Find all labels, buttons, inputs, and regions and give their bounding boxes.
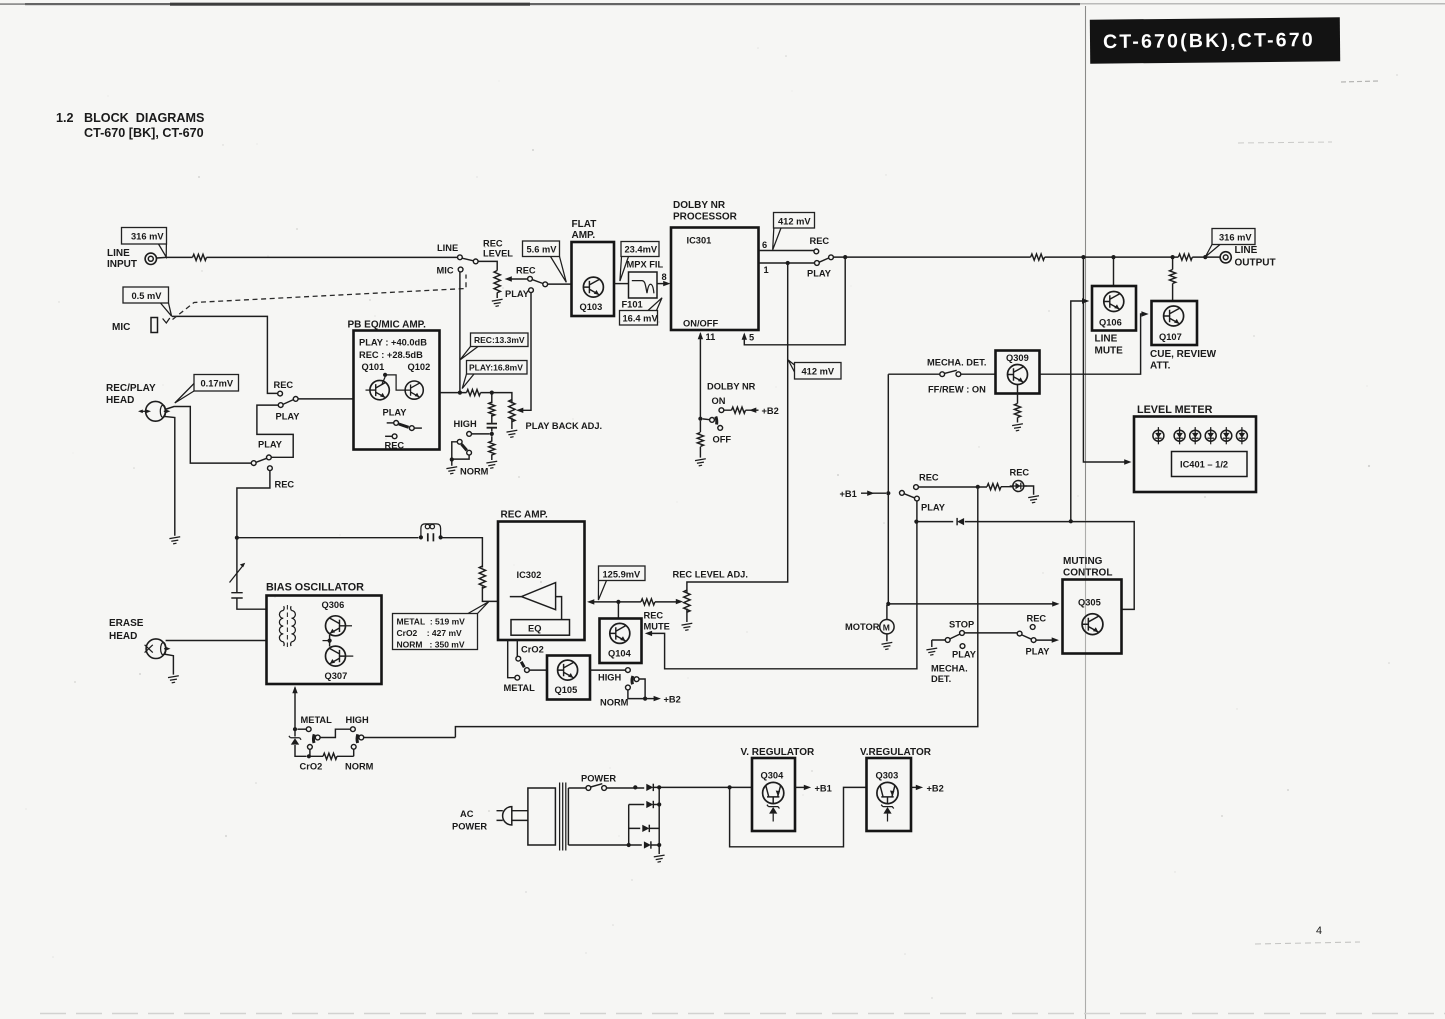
svg-text:CrO2: CrO2 bbox=[521, 645, 544, 655]
transistor Q104 bbox=[610, 623, 630, 643]
svg-text:+B1: +B1 bbox=[815, 784, 832, 794]
svg-text:LEVEL METER: LEVEL METER bbox=[1137, 404, 1213, 416]
svg-text:AMP.: AMP. bbox=[572, 230, 596, 241]
HIGH contact (bias) bbox=[351, 727, 356, 732]
transistor Q103 bbox=[583, 277, 603, 297]
svg-text:Q102: Q102 bbox=[408, 362, 431, 372]
svg-text:PLAY:16.8mV: PLAY:16.8mV bbox=[469, 363, 523, 373]
svg-text:METAL: METAL bbox=[504, 683, 536, 693]
wire: erase head to ground bbox=[164, 654, 174, 675]
svg-text:NORM : 350 mV: NORM : 350 mV bbox=[397, 640, 465, 650]
HIGH/NORM blade (bias) bbox=[351, 734, 363, 756]
ground (stop/play) bbox=[926, 648, 937, 655]
EQ box bbox=[511, 620, 570, 636]
svg-text:AC: AC bbox=[460, 809, 474, 819]
svg-text:LINE: LINE bbox=[107, 248, 130, 259]
svg-text:OFF: OFF bbox=[713, 435, 732, 445]
svg-text:HIGH: HIGH bbox=[346, 715, 370, 725]
svg-text:8: 8 bbox=[662, 272, 667, 282]
ground (rec level adj) bbox=[682, 623, 693, 630]
svg-text:MUTE: MUTE bbox=[644, 622, 670, 632]
bias table callout bbox=[393, 602, 489, 650]
node: dolby switch junction bbox=[698, 417, 702, 421]
svg-text:HIGH: HIGH bbox=[454, 419, 478, 429]
ground (rec level pot) bbox=[492, 299, 503, 306]
wire: erase head to bias box bbox=[166, 640, 266, 642]
node: output common junction bbox=[843, 255, 847, 259]
svg-text:PLAY: PLAY bbox=[505, 289, 530, 299]
svg-text:IC401 – 1/2: IC401 – 1/2 bbox=[1180, 460, 1228, 470]
svg-text:METAL: METAL bbox=[301, 715, 333, 725]
rectifier left bus bbox=[628, 805, 630, 846]
model title black box bbox=[1090, 17, 1340, 63]
wire: play contact down bbox=[649, 501, 917, 669]
transistor Q101 bbox=[370, 380, 389, 399]
wire: pin 6 to REC contact bbox=[759, 250, 814, 252]
svg-text:4: 4 bbox=[1316, 925, 1322, 937]
node: rec drop junction bbox=[976, 485, 980, 489]
svg-text:6: 6 bbox=[762, 240, 767, 250]
node: meter tap bbox=[1081, 255, 1085, 259]
playback adj pot bbox=[509, 400, 515, 422]
svg-text:23.4mV: 23.4mV bbox=[625, 245, 658, 255]
svg-text:REC:13.3mV: REC:13.3mV bbox=[474, 335, 525, 345]
node: high contact junction bbox=[490, 432, 494, 436]
Q307 base stub bbox=[346, 655, 354, 657]
wire: PB EQ output to junction bbox=[440, 393, 512, 429]
svg-text:CrO2: CrO2 bbox=[300, 762, 323, 772]
node: output jack tap bbox=[1203, 255, 1207, 259]
upper head switch bbox=[278, 391, 298, 407]
diode D3 row bbox=[629, 827, 660, 829]
OFF blade switch bbox=[703, 417, 723, 431]
wire: bypass to Q303 bbox=[730, 787, 867, 846]
svg-text:DOLBY NR: DOLBY NR bbox=[673, 200, 726, 211]
wire/arrow +B1 output bbox=[795, 786, 807, 788]
node: Q107 tap bbox=[1171, 255, 1175, 259]
resistor (pb eq output) bbox=[467, 390, 481, 396]
Q104 box bbox=[600, 619, 642, 664]
diode (play line) bbox=[957, 518, 964, 525]
trimmer capacitor bbox=[230, 563, 246, 598]
IC401 box bbox=[1172, 452, 1248, 477]
callout 5.6 mV bbox=[523, 241, 567, 282]
callout 125.9mV bbox=[598, 566, 645, 600]
node: bias select junction bbox=[293, 727, 297, 731]
svg-text:11: 11 bbox=[706, 332, 716, 342]
svg-text:HEAD: HEAD bbox=[106, 395, 134, 406]
node: mic/line junction bbox=[458, 391, 462, 395]
dashed mic cable to MIC contact bbox=[173, 275, 467, 320]
power switch bbox=[568, 784, 606, 791]
svg-text:FF/REW : ON: FF/REW : ON bbox=[928, 385, 986, 395]
node: q104 junction bbox=[616, 600, 620, 604]
PLAY contact (dolby) bbox=[815, 261, 820, 266]
svg-text:5.6 mV: 5.6 mV bbox=[527, 245, 558, 255]
HIGH contact (B2 switch) bbox=[626, 668, 631, 673]
node: line mute junction bbox=[1069, 519, 1073, 523]
ON contact bbox=[719, 408, 724, 413]
wire: Q309 emitter to ground bbox=[1017, 385, 1019, 423]
arrowhead into playback pot bbox=[516, 408, 523, 413]
stop/play switch with ground bbox=[932, 631, 965, 649]
svg-text:LINE: LINE bbox=[1235, 245, 1258, 256]
wire: Q105 to HIGH contact bbox=[590, 669, 626, 671]
svg-text:LINE: LINE bbox=[437, 243, 458, 253]
svg-text:REC: REC bbox=[919, 473, 939, 483]
wire: switch common to rec level pot bbox=[478, 261, 497, 298]
diode D2 row bbox=[629, 804, 660, 806]
transistor Q107 bbox=[1164, 306, 1184, 326]
mic V connector bbox=[163, 318, 170, 323]
callout 16.4 mV bbox=[620, 298, 663, 325]
resistor (output line 2) bbox=[1178, 254, 1192, 260]
svg-text:412 mV: 412 mV bbox=[778, 217, 811, 227]
svg-text:CT-670 [BK], CT-670: CT-670 [BK], CT-670 bbox=[84, 126, 204, 140]
rec/play head symbol bbox=[138, 401, 170, 421]
callout 23.4mV bbox=[620, 242, 659, 282]
svg-text:REC: REC bbox=[810, 236, 830, 246]
capacitor (eq network) bbox=[487, 424, 497, 428]
node: record line junction bbox=[235, 536, 239, 540]
zener (Q304) bbox=[767, 805, 780, 822]
page fold line bbox=[1085, 6, 1087, 1019]
eq network: resistor chain bbox=[491, 393, 493, 460]
wire: high contact to junction bbox=[472, 433, 490, 435]
svg-text:PROCESSOR: PROCESSOR bbox=[673, 212, 738, 223]
ground (playback pot) bbox=[507, 430, 518, 437]
svg-text:MECHA. DET.: MECHA. DET. bbox=[927, 358, 986, 368]
ground (motor) bbox=[882, 642, 893, 649]
Q107 box bbox=[1152, 301, 1198, 345]
transistor Q102 bbox=[405, 381, 423, 399]
wire: switch to rectifier bbox=[607, 787, 645, 789]
transistor Q106 bbox=[1104, 292, 1124, 312]
V.REGULATOR box Q303 bbox=[867, 758, 912, 831]
diode D1 bbox=[646, 784, 653, 791]
svg-text:DOLBY NR: DOLBY NR bbox=[707, 382, 756, 392]
resistor (rec line) bbox=[479, 566, 485, 588]
BIAS OSCILLATOR box bbox=[267, 596, 382, 685]
REC contact (dolby) bbox=[814, 249, 819, 254]
callout 316 mV (output) bbox=[1205, 229, 1255, 257]
zener (Q303) bbox=[881, 805, 894, 822]
transistor Q306 bbox=[326, 616, 346, 636]
REC contact (flat amp) bbox=[528, 276, 533, 281]
callout 412 mV (pin1 tap) bbox=[788, 360, 841, 379]
wire: meter tap down to level meter bbox=[1083, 257, 1127, 462]
svg-text:Q305: Q305 bbox=[1078, 598, 1101, 608]
svg-text:CUE, REVIEW: CUE, REVIEW bbox=[1150, 349, 1217, 360]
wire/arrow +B2 output bbox=[911, 786, 919, 788]
wire: REC contact to LED bbox=[918, 486, 1012, 488]
pin 11 arrow bbox=[699, 334, 701, 419]
svg-text:HEAD: HEAD bbox=[109, 631, 137, 642]
svg-text:Q304: Q304 bbox=[761, 771, 785, 781]
wire: lower switch REC contact to bias junction bbox=[237, 471, 270, 538]
wire: line input to LINE contact, with resistor bbox=[157, 256, 458, 259]
CrO2/METAL blade switch bbox=[515, 656, 547, 680]
ground (eq network) bbox=[486, 461, 497, 468]
svg-text:CrO2 : 427 mV: CrO2 : 427 mV bbox=[397, 628, 463, 638]
node: motor junction bbox=[886, 602, 890, 606]
callout PLAY:16.8mV bbox=[462, 361, 527, 389]
wire: head to lower switch pivot bbox=[165, 407, 251, 464]
transistor Q305 bbox=[1082, 614, 1103, 635]
IC301 box bbox=[671, 228, 759, 331]
svg-text:ON: ON bbox=[712, 396, 726, 406]
node: pin1 tap junction bbox=[786, 261, 790, 265]
wire: upper switch pivot loop to lower switch PLAY contact bbox=[257, 405, 293, 457]
ground (high/norm switch) bbox=[446, 467, 457, 474]
wire: metal blade to high contact bbox=[320, 729, 350, 737]
wire: ON to +B2 with resistor and arrow bbox=[724, 409, 759, 411]
svg-text:+B1: +B1 bbox=[840, 489, 857, 499]
LED 2 bbox=[1174, 427, 1185, 444]
svg-text:IC302: IC302 bbox=[517, 570, 542, 580]
REC AMP box bbox=[498, 522, 585, 641]
wire: trimmer cap branch to bias oscillator bbox=[237, 539, 266, 609]
wire: common to FLAT AMP bbox=[548, 283, 572, 285]
svg-text:0.17mV: 0.17mV bbox=[201, 379, 234, 389]
transistor Q303 bbox=[877, 782, 898, 803]
Q105 box bbox=[547, 656, 590, 700]
wire: pin1 tap down to rec level adj bbox=[687, 265, 788, 622]
svg-text:Q103: Q103 bbox=[580, 302, 603, 312]
svg-text:METAL : 519 mV: METAL : 519 mV bbox=[397, 617, 466, 627]
svg-text:PLAY: PLAY bbox=[952, 650, 977, 660]
AC plug bbox=[497, 807, 512, 825]
svg-text:NORM: NORM bbox=[460, 467, 489, 477]
wire: mpx to IC301 with arrow bbox=[657, 283, 666, 285]
node: rectifier top left bbox=[633, 785, 637, 789]
svg-text:CONTROL: CONTROL bbox=[1063, 568, 1112, 579]
LED (rec indicator) bbox=[1010, 481, 1027, 492]
HIGH/NORM blade to +B2 bbox=[626, 676, 661, 701]
wire: pin 5 feedback loop bbox=[744, 259, 845, 345]
opamp triangle bbox=[510, 583, 562, 620]
Q306 base stub bbox=[346, 625, 353, 627]
svg-text:REC: REC bbox=[644, 611, 664, 621]
svg-text:5: 5 bbox=[749, 333, 754, 343]
ground (dolby) bbox=[695, 459, 706, 466]
transistor Q304 bbox=[763, 782, 784, 803]
svg-text:MUTING: MUTING bbox=[1063, 556, 1103, 567]
svg-text:MOTOR: MOTOR bbox=[845, 622, 880, 632]
bottom secondary wire and diode D4 bbox=[568, 845, 659, 854]
ground (erase head) bbox=[168, 676, 179, 683]
node: play/diode junction bbox=[914, 520, 918, 524]
LINE OUTPUT jack bbox=[1220, 252, 1231, 263]
svg-text:REC: REC bbox=[274, 380, 294, 390]
transistor Q105 bbox=[558, 660, 578, 680]
svg-text:PLAY BACK ADJ.: PLAY BACK ADJ. bbox=[526, 421, 603, 431]
svg-text:MUTE: MUTE bbox=[1095, 346, 1124, 357]
mic jack bbox=[151, 318, 158, 333]
LINE contact bbox=[458, 255, 463, 260]
wire: LED to ground bbox=[1024, 486, 1033, 495]
svg-text:+B2: +B2 bbox=[664, 695, 681, 705]
page background noise: scan top strip bbox=[25, 3, 1080, 5]
svg-text:LEVEL: LEVEL bbox=[483, 249, 513, 259]
METAL contact (bias) bbox=[297, 728, 306, 730]
LINE/MIC switch arm and common bbox=[462, 258, 473, 261]
node: Q101 collector bbox=[383, 373, 387, 377]
svg-text:+B2: +B2 bbox=[762, 406, 779, 416]
erase head symbol bbox=[145, 639, 171, 659]
wire: line mute drive up to Q106 bbox=[1071, 301, 1085, 520]
svg-text:STOP: STOP bbox=[949, 620, 974, 630]
PLAY contact (flat amp) bbox=[529, 288, 534, 293]
HIGH/NORM blade switch (pb eq) bbox=[450, 439, 472, 465]
svg-text:REC LEVEL ADJ.: REC LEVEL ADJ. bbox=[673, 570, 748, 580]
METAL/CrO2 blade (bias) bbox=[308, 734, 321, 756]
switch arm to common bbox=[532, 280, 543, 284]
svg-text:CT-670(BK),CT-670: CT-670(BK),CT-670 bbox=[1103, 29, 1315, 53]
wire: plug to transformer bbox=[512, 811, 528, 821]
main output wire bbox=[833, 256, 1220, 258]
LEVEL METER box bbox=[1134, 417, 1256, 493]
svg-text:MIC: MIC bbox=[437, 266, 454, 276]
wire: mic to upper head switch REC contact bbox=[172, 316, 278, 393]
svg-text:POWER: POWER bbox=[581, 774, 616, 784]
svg-text:FLAT: FLAT bbox=[572, 219, 597, 230]
HIGH contact bbox=[467, 432, 472, 437]
V.REGULATOR box Q304 bbox=[752, 758, 795, 831]
svg-text:REC: REC bbox=[483, 239, 503, 249]
svg-text:PLAY: PLAY bbox=[921, 503, 946, 513]
coupling trap: arcs and capacitor bbox=[419, 524, 443, 542]
svg-text:REC: REC bbox=[1010, 468, 1030, 478]
wire: play contact down to playback pot wiper bbox=[520, 293, 531, 411]
wire: record line to coupling network bbox=[237, 537, 419, 539]
callout 316 mV (line input) bbox=[122, 228, 167, 258]
wire: Q309 output to Q107 bbox=[1040, 314, 1145, 374]
wire: muting drive to Q305 bbox=[888, 603, 1055, 605]
svg-text:EQ: EQ bbox=[528, 624, 541, 634]
svg-text:Q106: Q106 bbox=[1099, 318, 1122, 328]
node: oscillator midpoint bbox=[328, 639, 332, 643]
callout 412 mV (pin6) bbox=[773, 213, 815, 250]
rec amp bottom stub to METAL contact bbox=[508, 640, 515, 678]
MPX filter box F101 bbox=[629, 272, 658, 298]
svg-text:LINE: LINE bbox=[1095, 334, 1118, 345]
LED 1 bbox=[1153, 427, 1164, 444]
Q309 box bbox=[996, 351, 1040, 394]
svg-text:PLAY: PLAY bbox=[276, 412, 301, 422]
svg-text:316 mV: 316 mV bbox=[1219, 233, 1252, 243]
svg-text:412 mV: 412 mV bbox=[802, 367, 835, 377]
svg-text:DET.: DET. bbox=[931, 674, 951, 684]
resistor CrO2-NORM bbox=[309, 755, 354, 757]
wire: high blade to rec bus bbox=[364, 737, 456, 739]
svg-text:PLAY: PLAY bbox=[1026, 647, 1051, 657]
svg-text:PLAY: PLAY bbox=[807, 269, 832, 279]
resistor R in line input bbox=[193, 254, 207, 260]
wire: flat amp to mpx filter bbox=[614, 283, 628, 285]
svg-text:ERASE: ERASE bbox=[109, 618, 144, 629]
vertical B1 bus bbox=[887, 374, 889, 604]
svg-text:REC: REC bbox=[385, 441, 405, 451]
LED 6 bbox=[1236, 427, 1247, 444]
rec/play switch (muting) bbox=[1017, 625, 1036, 643]
svg-text:1.2 BLOCK DIAGRAMS: 1.2 BLOCK DIAGRAMS bbox=[56, 111, 204, 125]
rectifier right bus bbox=[658, 787, 660, 845]
node: eq network junction bbox=[490, 391, 494, 395]
PB EQ/MIC AMP box bbox=[354, 331, 440, 450]
svg-text:POWER: POWER bbox=[452, 822, 487, 832]
wire: ff/rew switch left to B1 column bbox=[888, 373, 940, 375]
LED 4 bbox=[1205, 427, 1216, 444]
svg-text:125.9mV: 125.9mV bbox=[603, 570, 642, 580]
svg-text:NORM: NORM bbox=[600, 698, 629, 708]
callout REC:13.3mV bbox=[460, 333, 528, 360]
svg-text:OUTPUT: OUTPUT bbox=[1235, 258, 1276, 269]
svg-text:REC: REC bbox=[1027, 614, 1047, 624]
wire: Q101 collector to Q102 base bbox=[382, 375, 406, 390]
svg-text:REC: REC bbox=[275, 480, 295, 490]
motor symbol bbox=[880, 605, 894, 641]
wire/arrow: bias select into box bbox=[294, 688, 296, 730]
svg-text:Q303: Q303 bbox=[876, 771, 899, 781]
svg-text:PLAY: PLAY bbox=[383, 408, 408, 418]
ground (rectifier) bbox=[654, 855, 665, 862]
filter response curve bbox=[632, 281, 654, 294]
svg-text:F101: F101 bbox=[622, 300, 643, 310]
svg-text:V.REGULATOR: V.REGULATOR bbox=[860, 747, 932, 758]
wire: coupling to REC AMP input resistor bbox=[442, 538, 498, 602]
wiper arrow from REC contact into pot bbox=[509, 278, 528, 280]
svg-text:+B2: +B2 bbox=[927, 784, 944, 794]
MIC contact bbox=[458, 267, 463, 272]
LED 5 bbox=[1221, 427, 1232, 444]
wire: upper switch to PB EQ box bbox=[298, 398, 353, 400]
node: Q106 tap bbox=[1111, 255, 1115, 259]
svg-text:INPUT: INPUT bbox=[107, 259, 137, 270]
ground (rec LED) bbox=[1028, 496, 1039, 503]
svg-text:M: M bbox=[883, 622, 890, 632]
lower head switch bbox=[251, 455, 272, 471]
rec amp bottom stub to CrO2 contact bbox=[516, 640, 518, 656]
svg-text:0.5 mV: 0.5 mV bbox=[132, 291, 163, 301]
svg-text:V. REGULATOR: V. REGULATOR bbox=[741, 747, 815, 758]
zener diode (bias) bbox=[294, 731, 296, 737]
svg-text:REC: REC bbox=[516, 266, 536, 276]
svg-text:IC301: IC301 bbox=[687, 236, 712, 246]
transistor Q307 bbox=[326, 646, 346, 666]
switch arm play to common bbox=[819, 258, 829, 262]
transformer primary block bbox=[528, 788, 556, 845]
LED 3 bbox=[1190, 427, 1201, 444]
wire: rec amp input with resistor bbox=[591, 601, 679, 603]
Q106 box bbox=[1092, 286, 1136, 331]
ground (head) bbox=[169, 537, 180, 544]
svg-text:Q307: Q307 bbox=[325, 671, 348, 681]
node: rectifier out bbox=[657, 785, 661, 789]
svg-text:REC : +28.5dB: REC : +28.5dB bbox=[359, 350, 423, 360]
svg-text:ATT.: ATT. bbox=[1150, 361, 1171, 372]
wire: Q306 emitter to Q307 bbox=[329, 635, 331, 647]
svg-text:Q101: Q101 bbox=[362, 362, 385, 372]
transistor Q309 bbox=[1008, 365, 1028, 385]
node: B1 junction bbox=[886, 491, 890, 495]
svg-text:MIC: MIC bbox=[112, 322, 130, 333]
wire: stop contact to rec/play switch bbox=[964, 632, 1017, 634]
callout 0.17mV (head) bbox=[175, 375, 239, 404]
LINE INPUT jack bbox=[145, 253, 156, 264]
svg-text:ON/OFF: ON/OFF bbox=[683, 319, 718, 329]
callout 0.5 mV (mic) bbox=[123, 287, 172, 316]
